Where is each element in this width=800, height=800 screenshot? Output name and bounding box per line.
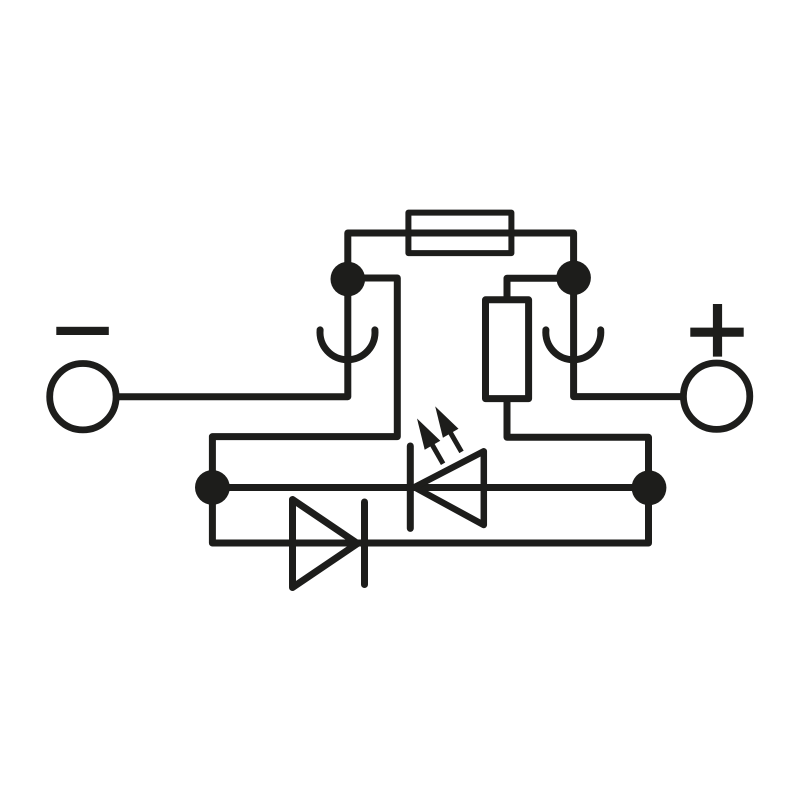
LED arrow 1 xyxy=(417,419,443,464)
diode cathode bar xyxy=(361,502,368,585)
clamp contact left xyxy=(320,330,375,360)
wire: node B to resistor top xyxy=(507,278,574,300)
LED D2 xyxy=(410,406,484,528)
terminal circle left xyxy=(50,364,116,430)
wire: main rail from left terminal up over fuse down to right terminal xyxy=(116,233,685,397)
node D (junction dot bottom-right) xyxy=(632,470,667,505)
LED arrow 2 xyxy=(435,406,461,452)
minus label xyxy=(56,327,109,335)
resistor R1 xyxy=(486,300,529,399)
node A (junction dot top-left) xyxy=(331,262,366,297)
fuse F1 xyxy=(408,213,511,254)
node B (junction dot top-right) xyxy=(556,261,591,296)
clamp contact right xyxy=(546,330,601,360)
node C (junction dot bottom-left) xyxy=(195,470,230,505)
terminal circle right xyxy=(683,363,749,429)
diode D1 xyxy=(293,500,365,588)
plus label xyxy=(690,304,743,357)
wire: branch node A right-down to bottom-left corner, bottom loop, up to resistor bottom xyxy=(212,278,648,543)
wire: LED row between bottom nodes xyxy=(212,484,648,491)
LED cathode bar xyxy=(407,446,414,528)
LED triangle xyxy=(414,451,483,525)
diode triangle xyxy=(293,500,358,588)
